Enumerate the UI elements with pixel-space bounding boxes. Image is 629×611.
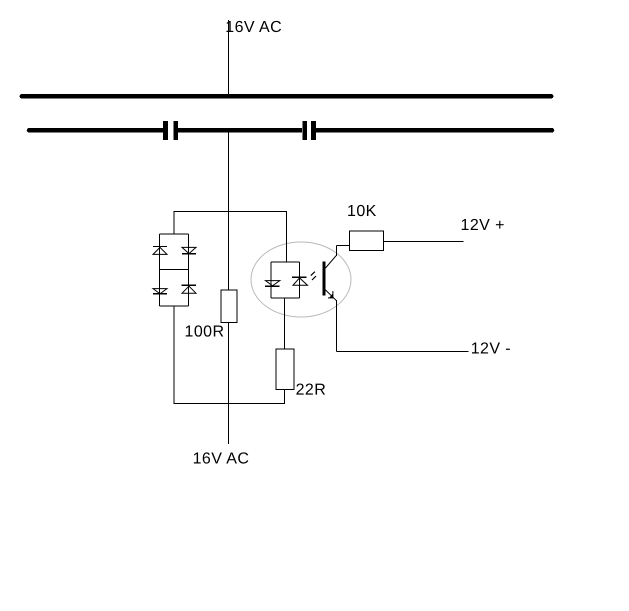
rail 2 right segment: [316, 128, 552, 133]
wire left branch down to diode stack: [173, 212, 175, 235]
svg-text:22R: 22R: [296, 382, 327, 399]
wire top horizontal node bus: [174, 211, 288, 213]
insulated gap 1 plate A: [163, 121, 168, 140]
insulated gap 1 plate B: [174, 121, 179, 140]
label 22R: [296, 382, 327, 399]
net label 16V AC (bottom): [193, 451, 250, 468]
svg-text:16V AC: 16V AC: [225, 19, 282, 36]
rail 2 middle segment: [178, 128, 302, 133]
wire collector up to 10K: [337, 246, 350, 257]
phototransistor Q1 base bar: [323, 262, 326, 296]
wire diode stack bottom down to bottom bus: [173, 306, 175, 404]
diode D2 (upper-right, points down): [182, 247, 196, 253]
net label 12V -: [471, 341, 511, 358]
wire LED cathode down to 22R: [284, 298, 286, 349]
svg-text:12V -: 12V -: [471, 341, 511, 358]
LED D6 (right, points up): [292, 277, 307, 285]
light ray 2: [312, 276, 316, 280]
resistor 10K body: [350, 231, 384, 251]
diode D1 (upper-left, anode down, points up): [153, 247, 167, 255]
opto LED pair frame: [271, 262, 300, 298]
label 100R: [184, 324, 224, 341]
light ray 1: [311, 272, 315, 276]
Q1 emitter lead with arrow: [325, 289, 337, 301]
optocoupler U1 envelope (ellipse): [251, 242, 351, 317]
insulated gap 2 plate B: [311, 121, 316, 140]
svg-text:16V AC: 16V AC: [193, 451, 250, 468]
resistor 100R body: [221, 290, 237, 323]
LED D5 (left, points down): [265, 281, 280, 287]
Q1 collector lead: [326, 256, 337, 268]
diode D3 (lower-left, points down): [153, 289, 167, 294]
diode stack frame (two anti-parallel pairs): [160, 234, 189, 306]
wire emitter down and right to 12V -: [337, 300, 469, 352]
wire 22R down to bottom bus: [284, 390, 286, 404]
svg-text:12V +: 12V +: [460, 217, 504, 234]
wire 10K to 12V +: [384, 241, 464, 243]
net label 12V +: [460, 217, 504, 234]
svg-text:100R: 100R: [184, 324, 224, 341]
resistor 22R body: [276, 349, 294, 390]
svg-text:10K: 10K: [347, 203, 377, 220]
insulated gap 2 plate A: [302, 121, 307, 140]
rail 2 (lower heavy bus bar) left segment: [29, 128, 164, 133]
wire from 16V AC feed down to top rail: [228, 20, 230, 96]
net label 16V AC (top): [225, 19, 282, 36]
label 10K: [347, 203, 377, 220]
rail 1 (upper heavy bus bar): [22, 94, 551, 99]
wire opto LED branch down from node bus: [286, 212, 288, 263]
diode D4 (lower-right, points up): [182, 285, 197, 293]
wire rail 2 down to bottom 16V AC feed (main vertical): [228, 130, 230, 444]
wire bottom horizontal return bus: [174, 403, 286, 405]
